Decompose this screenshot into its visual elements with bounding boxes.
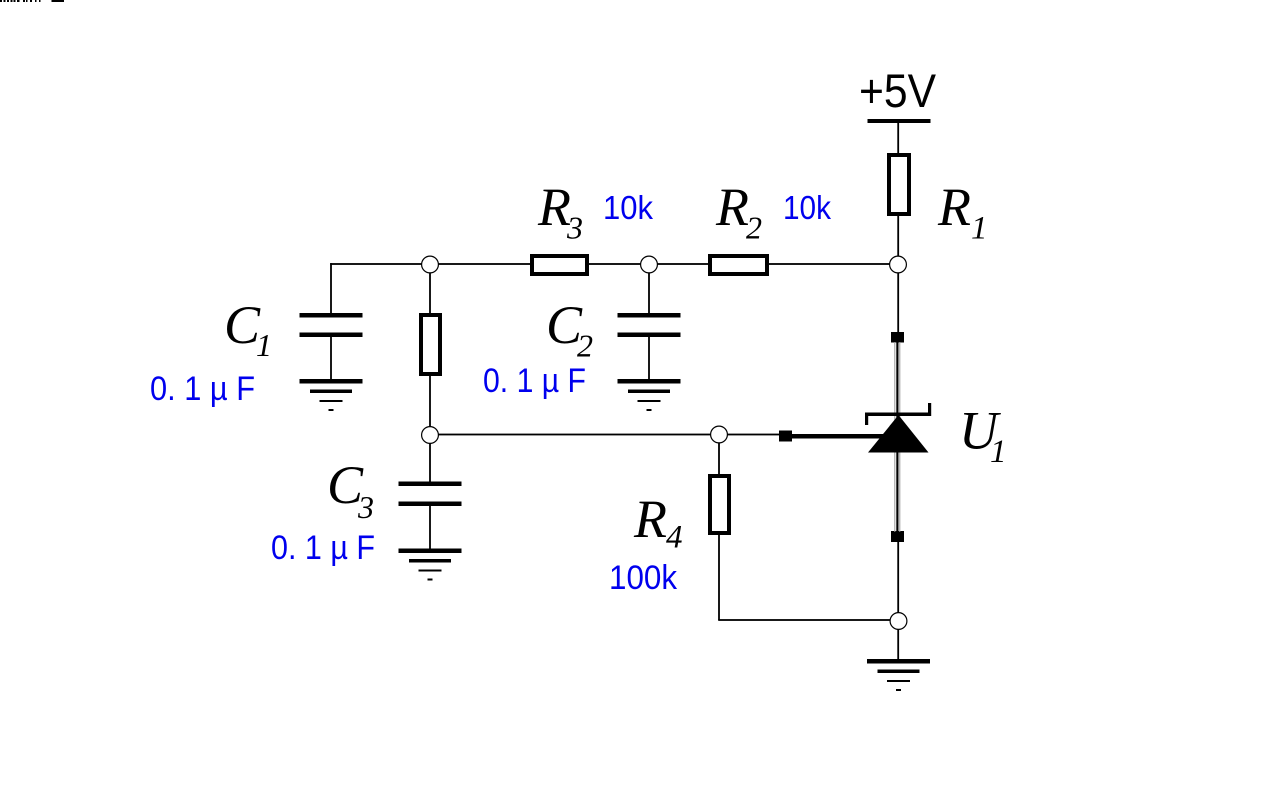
svg-text:10k: 10k xyxy=(603,189,653,226)
ground main (under U1 node) xyxy=(867,659,930,691)
U1 reference pin thick line xyxy=(790,434,884,439)
wire C1 bottom lead xyxy=(330,336,332,380)
svg-text:0. 1 µ F: 0. 1 µ F xyxy=(150,370,255,408)
svg-text:10k: 10k xyxy=(783,189,831,226)
wire C2 top lead vertical xyxy=(648,263,650,314)
U1 triangle xyxy=(868,415,929,453)
wire U1 anode to ground node xyxy=(897,541,899,660)
node A (R3 left junction) xyxy=(422,256,439,273)
capacitor C2 plates xyxy=(618,313,681,337)
node D (C3 top junction) xyxy=(422,427,439,444)
capacitor C2 label xyxy=(546,295,593,364)
svg-text:0. 1 µ F: 0. 1 µ F xyxy=(271,529,375,567)
svg-text:2: 2 xyxy=(746,210,762,246)
svg-text:3: 3 xyxy=(357,489,374,525)
capacitor C1 label xyxy=(224,295,272,363)
wire node A to R5 top xyxy=(429,263,431,314)
capacitor C1 plates xyxy=(300,313,363,337)
resistor R1 label xyxy=(937,177,988,247)
ground under C3 xyxy=(399,549,462,581)
svg-text:4: 4 xyxy=(666,520,683,556)
resistor R4 label xyxy=(633,489,683,556)
node C (R1 bottom junction) xyxy=(890,256,907,273)
resistor R2 body xyxy=(710,256,767,274)
capacitor C3 plates xyxy=(399,482,462,507)
wire node D to R4 top xyxy=(718,434,720,475)
resistor R5 body (unlabeled) xyxy=(421,315,440,374)
svg-text:R: R xyxy=(537,177,571,237)
U1 anode pin square xyxy=(891,531,904,542)
wire R1 to U1 cathode xyxy=(897,215,899,333)
wire R5 bottom to C3 xyxy=(429,375,431,482)
svg-text:2: 2 xyxy=(577,328,593,364)
U1 cathode bar with hooks xyxy=(865,403,931,425)
node E (R4 top junction) xyxy=(711,426,728,443)
power +5V rail bar xyxy=(868,119,931,123)
svg-text:R: R xyxy=(937,177,971,237)
U1 body vertical line xyxy=(894,342,900,532)
svg-text:1: 1 xyxy=(256,327,272,363)
node B (R3/R2 junction) xyxy=(641,256,658,273)
U1 reference pin square xyxy=(779,431,792,442)
svg-text:R: R xyxy=(633,489,667,549)
svg-text:100k: 100k xyxy=(609,559,678,597)
resistor R3 label xyxy=(537,177,583,246)
op-amp U1 (TL431 shunt regulator) cathode pin square xyxy=(891,332,904,343)
capacitor C3 label xyxy=(327,455,374,525)
svg-text:+5V: +5V xyxy=(859,64,937,117)
ground under C2 xyxy=(618,379,681,411)
ground under C1 xyxy=(300,379,363,411)
wire main horizontal top net xyxy=(330,263,898,265)
svg-text:1: 1 xyxy=(990,434,1007,470)
wire C1 top lead vertical xyxy=(330,263,332,314)
svg-text:0. 1 µ F: 0. 1 µ F xyxy=(483,362,586,400)
wire +5V bar to R1 xyxy=(897,121,899,154)
U1 label xyxy=(959,401,1007,471)
wire R4 bottom down xyxy=(718,534,720,620)
wire bottom horizontal (R4 to ground node) xyxy=(718,619,899,621)
resistor R1 body xyxy=(889,155,909,214)
resistor R3 body xyxy=(532,256,587,274)
svg-text:1: 1 xyxy=(971,211,988,247)
wire C2 bottom lead xyxy=(648,336,650,380)
resistor R2 label xyxy=(715,177,762,246)
svg-text:3: 3 xyxy=(566,210,583,246)
wire lower horizontal (feedback net) xyxy=(429,434,780,436)
resistor R4 body xyxy=(710,476,729,533)
node F (ground junction) xyxy=(890,613,907,630)
wire C3 bottom lead xyxy=(429,505,431,550)
clipped text artifact top-left xyxy=(0,0,64,2)
svg-text:R: R xyxy=(715,177,749,237)
